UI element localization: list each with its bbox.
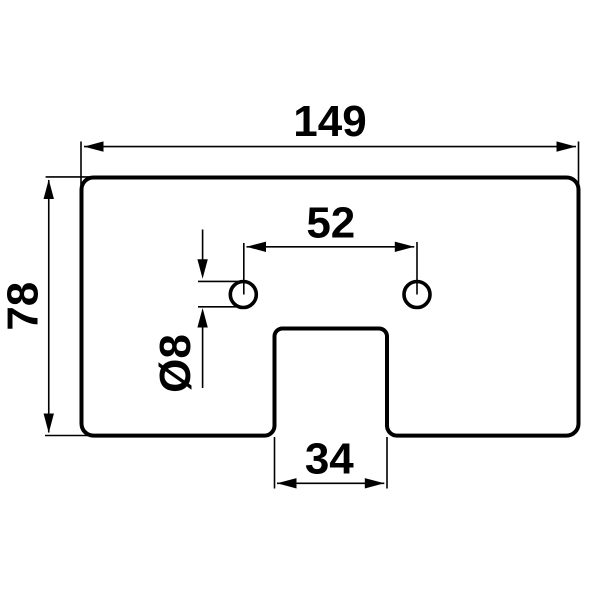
dim 34 dimension line xyxy=(277,482,384,484)
dim 78 arrow down xyxy=(44,414,54,434)
dim 34 extension line right xyxy=(386,437,388,489)
dim 149 extension line right xyxy=(578,142,580,191)
dim 149 arrow right xyxy=(557,141,577,151)
dim 52 extension line right (to hole centre) xyxy=(416,242,418,295)
dim 34 arrow right xyxy=(365,478,385,488)
hole right xyxy=(404,282,430,308)
dim diameter-8 tangent line bottom xyxy=(198,306,244,308)
dim 78 extension line bottom xyxy=(45,435,93,437)
dim 149 arrow left xyxy=(84,141,104,151)
svg-text:34: 34 xyxy=(305,435,354,484)
dim 78 arrow up xyxy=(44,180,54,200)
dim 149 extension line left xyxy=(80,142,82,191)
dim 52 extension line left (to hole centre) xyxy=(243,243,245,295)
plate outline with bottom notch xyxy=(82,178,579,436)
dim 52 arrow right xyxy=(395,242,415,252)
dim 34 arrow left xyxy=(277,478,297,488)
svg-text:78: 78 xyxy=(0,282,48,331)
svg-text:149: 149 xyxy=(293,97,366,146)
svg-text:Ø8: Ø8 xyxy=(151,334,200,393)
hole left xyxy=(230,282,256,308)
dim diameter-8 tangent line top xyxy=(198,280,246,282)
dim diameter-8 leader shaft lower with up arrow xyxy=(197,308,207,328)
dim 78 extension line top xyxy=(46,176,91,178)
dim 52 arrow left xyxy=(247,242,267,252)
dim 34 extension line left xyxy=(274,437,276,489)
dim 52 dimension line xyxy=(247,246,415,248)
dim 149 dimension line xyxy=(84,146,576,148)
dim diameter-8 leader shaft upper with down arrow xyxy=(202,230,204,263)
svg-text:52: 52 xyxy=(306,198,355,247)
dim 78 dimension line xyxy=(48,180,50,433)
